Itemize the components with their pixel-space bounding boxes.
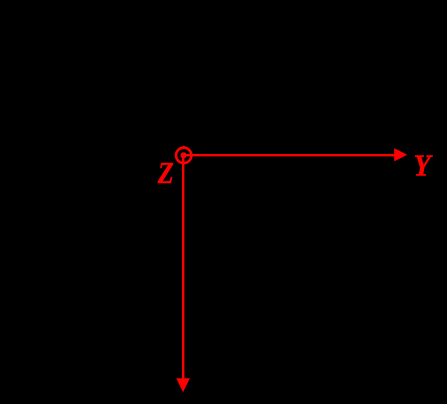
- wire Y-axis: [184, 154, 397, 156]
- Y-axis arrowhead: [394, 148, 407, 161]
- wire X-axis downward: [182, 155, 184, 379]
- svg-text:Z: Z: [157, 156, 174, 190]
- node origin: Z-axis circled-dot symbol: [176, 146, 191, 163]
- X-axis arrowhead: [176, 378, 190, 392]
- svg-text:Y: Y: [414, 148, 434, 183]
